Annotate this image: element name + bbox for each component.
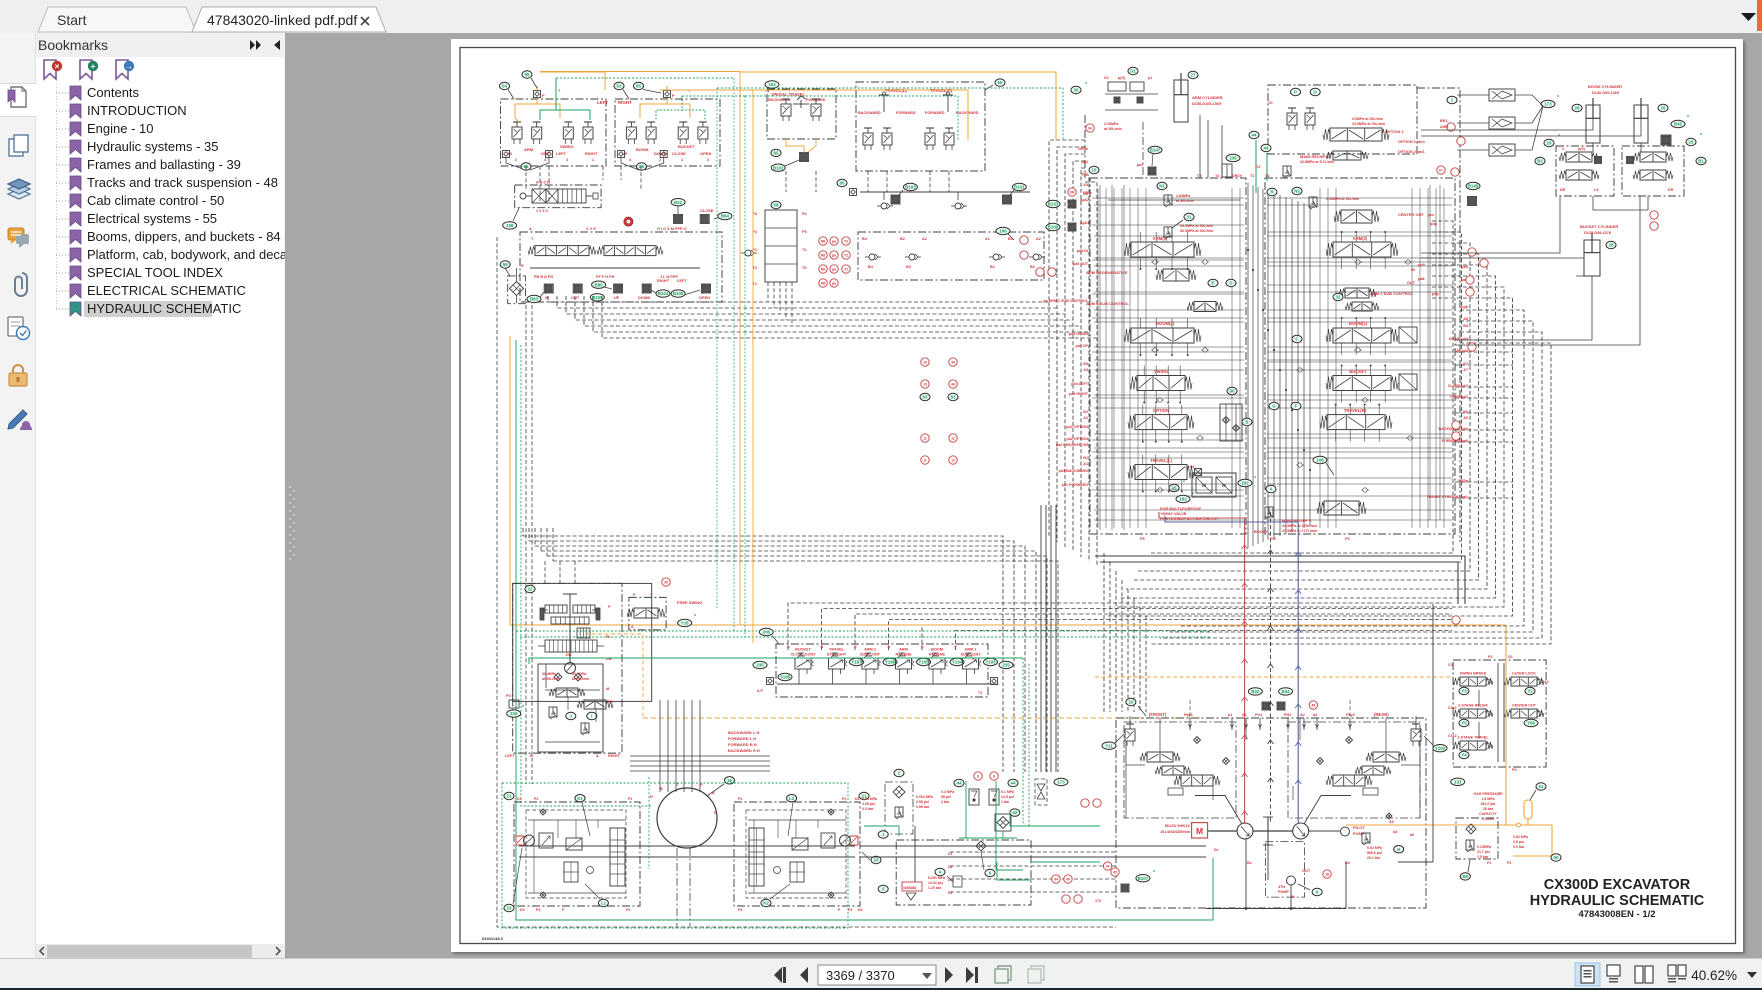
svg-text:UP pa8: UP pa8 — [1456, 349, 1468, 353]
svg-text:CENTER OUT: CENTER OUT — [1398, 212, 1425, 217]
svg-text:Trt: Trt — [1268, 101, 1273, 105]
right bank internal rails — [1267, 188, 1452, 528]
svg-text:B42: B42 — [1251, 689, 1260, 694]
schematic frame — [460, 48, 1736, 944]
oval 85 second — [634, 82, 662, 93]
svg-text:4: 4 — [629, 158, 632, 162]
svg-text:at 29L/min: at 29L/min — [542, 677, 559, 681]
svg-text:K1: K1 — [577, 796, 583, 801]
svg-text:pb3 LEFT: pb3 LEFT — [1071, 382, 1089, 386]
free swing valve Y18 — [627, 593, 702, 630]
svg-text:IN: IN — [545, 295, 549, 300]
oval 235 left — [753, 661, 774, 693]
pilot supply valve P/T left — [534, 86, 562, 98]
svg-text:pa1: pa1 — [1137, 163, 1143, 167]
svg-text:A B C D: A B C D — [536, 181, 550, 185]
svg-text:18 bar: 18 bar — [1483, 807, 1494, 811]
cylinder connect lines — [1421, 105, 1648, 345]
svg-text:*: * — [1085, 82, 1087, 88]
pump suction block 1 — [878, 826, 1031, 905]
svg-text:ARM: ARM — [899, 648, 908, 652]
svg-text:P: P — [1294, 90, 1297, 95]
oval L2 — [787, 795, 797, 837]
svg-text:A: A — [631, 625, 634, 629]
solenoid valve OPEN — [699, 284, 711, 300]
svg-text:pa5 IN: pa5 IN — [1077, 249, 1088, 253]
svg-text:B4: B4 — [862, 237, 868, 241]
pump inner boxes — [1124, 722, 1420, 818]
travel A-port down line — [1398, 604, 1433, 862]
svg-text:LEFT: LEFT — [677, 278, 687, 283]
boom cylinder label — [1588, 84, 1622, 95]
oval 173 check — [1035, 778, 1068, 805]
svg-text:B148: B148 — [1468, 184, 1479, 189]
svg-text:163: 163 — [768, 82, 776, 87]
valve Y99 center cut — [1504, 704, 1544, 727]
svg-text:3369 / 3370: 3369 / 3370 — [826, 968, 895, 983]
svg-text:P4: P4 — [738, 908, 742, 912]
svg-text:B6: B6 — [1462, 874, 1468, 879]
svg-text:pb1 BACKWARD: pb1 BACKWARD — [1059, 469, 1089, 473]
svg-text:B4: B4 — [868, 265, 874, 269]
svg-text:DR: DR — [1668, 188, 1674, 192]
svg-text:pg2: pg2 — [1081, 160, 1088, 164]
red circle near arm cylinder cluster — [1086, 124, 1094, 132]
svg-text:T: T — [531, 237, 534, 241]
svg-text:*: * — [1687, 115, 1689, 121]
svg-text:pb9: pb9 — [1418, 263, 1425, 267]
svg-text:M: M — [606, 687, 609, 691]
solenoid valve B101 — [1003, 183, 1027, 204]
orange dashed swing P line — [585, 634, 643, 718]
svg-text:ARM 1 SUB CONTROL: ARM 1 SUB CONTROL — [1086, 301, 1129, 306]
svg-text:Y104: Y104 — [952, 660, 963, 665]
pilot valve block 53 (right joystick BOOM/BUCKET) — [615, 99, 720, 170]
svg-text:0.06 bar: 0.06 bar — [916, 805, 930, 809]
svg-text:0.03 MPa: 0.03 MPa — [862, 797, 877, 801]
svg-text:BACKWARD: BACKWARD — [956, 111, 979, 115]
solenoid valve B84 CLOSE — [700, 208, 732, 224]
relief H — [1362, 833, 1404, 860]
solenoid valve B102 — [771, 153, 808, 172]
svg-text:pcc: pcc — [1428, 213, 1435, 217]
boost dashed vertical — [1268, 512, 1274, 824]
svg-text:pa4 UP: pa4 UP — [1075, 344, 1088, 348]
svg-text:22: 22 — [528, 587, 533, 592]
svg-text:a3: a3 — [1393, 830, 1397, 834]
svg-text:T: T — [676, 783, 679, 787]
green connects pump suction — [864, 812, 1100, 880]
svg-text:B1: B1 — [1698, 159, 1704, 164]
svg-text:p1: p1 — [1148, 76, 1152, 80]
svg-text:53: 53 — [617, 84, 622, 89]
svg-text:866.6 psi: 866.6 psi — [1367, 851, 1382, 855]
svg-text:a2: a2 — [1313, 713, 1317, 717]
svg-text:*: * — [1700, 133, 1702, 139]
svg-text:BUCKET: BUCKET — [678, 144, 695, 149]
green dashed pair near solenoid row to pump — [1023, 658, 1029, 826]
oval B105 — [590, 294, 604, 301]
oval 44 filter right — [989, 779, 1018, 805]
svg-text:CLOSE: CLOSE — [672, 151, 686, 156]
svg-text:P4: P4 — [802, 212, 808, 216]
wire top orange/green feeders — [540, 71, 740, 73]
oval 21 left — [504, 792, 514, 799]
svg-text:N1: N1 — [1159, 184, 1165, 189]
svg-text:UP: UP — [614, 295, 620, 300]
svg-text:OPEN: OPEN — [700, 151, 711, 156]
svg-text:Pay1: Pay1 — [1184, 713, 1193, 717]
svg-text:30.4MPa: 30.4MPa — [542, 672, 556, 676]
svg-text:P3: P3 — [1345, 537, 1350, 541]
oval B44 solenoid — [1277, 688, 1293, 710]
svg-text:A1: A1 — [985, 237, 990, 241]
svg-text:44: 44 — [1011, 781, 1016, 786]
svg-text:pa: pa — [832, 240, 836, 244]
svg-text:LEFT: LEFT — [556, 151, 567, 156]
wire bus descend to pump — [1104, 553, 1146, 712]
svg-text:CLOSE: CLOSE — [700, 208, 714, 213]
ovals J and I — [566, 712, 597, 719]
svg-text:Y102: Y102 — [1435, 746, 1446, 751]
svg-text:A: A — [529, 227, 532, 231]
svg-text:58 psi: 58 psi — [941, 795, 951, 799]
svg-text:CENTER CUT: CENTER CUT — [1512, 704, 1537, 708]
svg-text:Dr: Dr — [1214, 848, 1219, 852]
svg-text:14.5 psi: 14.5 psi — [1001, 795, 1014, 799]
left dashed vertical pair — [526, 305, 532, 784]
travel bundle verticals above circle16 — [660, 700, 700, 755]
svg-text:47843020-linked pdf.pdf: 47843020-linked pdf.pdf — [207, 12, 357, 28]
solenoid valve B103 — [891, 183, 917, 204]
svg-text:C: C — [1562, 147, 1565, 151]
engine M box — [1160, 823, 1207, 838]
svg-text:D3: D3 — [948, 891, 952, 895]
svg-text:B44: B44 — [1282, 689, 1291, 694]
boom cylinder valve cluster left — [1535, 134, 1614, 196]
svg-text:2-STAGE TRAVEL: 2-STAGE TRAVEL — [1457, 736, 1489, 740]
svg-text:45: 45 — [1311, 704, 1315, 708]
svg-text:2.8 psi: 2.8 psi — [1513, 840, 1524, 844]
svg-text:pb2 OPTION: pb2 OPTION — [1066, 425, 1088, 429]
svg-text:P2: P2 — [1507, 861, 1511, 865]
svg-text:TRAVEL: TRAVEL — [829, 648, 845, 652]
wire bus vertical center V1 — [1049, 140, 1097, 567]
svg-text:PF F H PH: PF F H PH — [596, 275, 615, 279]
svg-text:85: 85 — [639, 164, 644, 169]
svg-text:P2: P2 — [534, 797, 538, 801]
svg-text:C1s2: C1s2 — [1448, 734, 1457, 738]
svg-text:94: 94 — [1088, 127, 1092, 131]
svg-text:161.0kW/1800min: 161.0kW/1800min — [1160, 830, 1190, 834]
boom cylinder valve cluster right — [1622, 133, 1706, 196]
pump circle rear — [1293, 823, 1309, 839]
svg-text:Y11: Y11 — [1105, 743, 1113, 748]
svg-text:B: B — [660, 787, 663, 791]
svg-text:Y103: Y103 — [985, 660, 996, 665]
svg-text:DR1h: DR1h — [1078, 147, 1088, 151]
oval 163 — [765, 81, 779, 92]
svg-text:47843008EN - 1/2: 47843008EN - 1/2 — [1578, 909, 1655, 920]
svg-text:G: G — [1272, 404, 1276, 409]
svg-text:B: B — [821, 645, 824, 649]
spool riser stubs right bank — [1335, 231, 1387, 442]
wire block58 risers — [768, 282, 792, 326]
svg-text:3: 3 — [707, 158, 709, 162]
spool CENTER CUT — [1334, 210, 1438, 226]
wire bus nest outer rings — [1150, 310, 1551, 644]
svg-text:*: * — [1557, 95, 1559, 101]
red circles manifold right ports — [1468, 248, 1488, 351]
svg-text:90: 90 — [1230, 389, 1235, 394]
red circles near manifold — [1036, 123, 1465, 276]
svg-text:L2: L2 — [789, 796, 795, 801]
oval K1 — [575, 795, 590, 837]
svg-text:236: 236 — [1229, 156, 1237, 161]
svg-text:(FRONT): (FRONT) — [1149, 712, 1167, 717]
svg-text:OPEN: OPEN — [699, 295, 710, 300]
valve ARM 1 SUB CONTROL — [1086, 301, 1223, 312]
svg-text:B103: B103 — [905, 185, 916, 190]
svg-text:0.58 psi: 0.58 psi — [916, 800, 929, 804]
svg-text:FORWARD: FORWARD — [925, 111, 945, 115]
mid port circles cluster — [920, 358, 958, 464]
left bank port labels — [1043, 147, 1088, 487]
svg-text:44: 44 — [1106, 865, 1110, 869]
svg-text:1: 1 — [592, 158, 594, 162]
svg-text:1 bar: 1 bar — [1001, 800, 1010, 804]
svg-text:R: R — [521, 264, 524, 268]
svg-text:B2: B2 — [1083, 410, 1088, 414]
svg-text:I: I — [591, 714, 592, 719]
swing motor relief pair — [505, 664, 620, 758]
svg-text:pg&2: pg&2 — [1080, 198, 1089, 202]
valve Y4 2-stage travel — [1453, 736, 1493, 759]
svg-text:Y187: Y187 — [851, 660, 862, 665]
svg-text:B109: B109 — [1048, 225, 1059, 230]
svg-text:HYDRAULIC SCHEMATIC: HYDRAULIC SCHEMATIC — [1530, 893, 1705, 909]
oval 85 top-left — [522, 71, 537, 88]
oval D1 cluster — [1104, 67, 1158, 131]
oval 85 under block 53 — [637, 163, 647, 170]
pump right dashed stubs — [948, 852, 1116, 895]
oval 85 travel — [837, 179, 847, 186]
svg-text:26: 26 — [1575, 106, 1580, 111]
svg-text:39: 39 — [664, 581, 668, 585]
left boundary dashed — [497, 237, 1116, 927]
svg-text:DR3p: DR3p — [1458, 479, 1468, 483]
svg-text:261.0 psi: 261.0 psi — [1481, 802, 1496, 806]
svg-text:P1: P1 — [1487, 861, 1491, 865]
svg-text:pa ARM 1 SUB CONTROL: pa ARM 1 SUB CONTROL — [1043, 299, 1088, 303]
svg-text:B: B — [530, 754, 533, 758]
svg-text:CAPACITY: CAPACITY — [1479, 812, 1497, 816]
svg-text:A2: A2 — [1083, 416, 1088, 420]
svg-text:15: 15 — [1092, 168, 1097, 173]
svg-text:Y18: Y18 — [681, 621, 689, 626]
wire bus nest right side — [1108, 221, 1513, 616]
drive shaft — [1208, 817, 1293, 845]
svg-text:BACKWARD: BACKWARD — [858, 111, 881, 115]
swing block extra valves — [546, 664, 613, 722]
svg-text:85: 85 — [774, 151, 779, 156]
svg-text:BUCKET: BUCKET — [1349, 369, 1367, 374]
oval 234 and port — [506, 694, 524, 717]
svg-text:2.84MPa: 2.84MPa — [1176, 194, 1191, 198]
oval 236 and valve — [1222, 154, 1240, 177]
svg-text:A6: A6 — [1463, 416, 1468, 420]
pump left port circles — [1103, 862, 1155, 892]
oval 182 right — [1238, 476, 1256, 487]
svg-text:*: * — [694, 614, 696, 620]
svg-text:Pay2: Pay2 — [1346, 713, 1355, 717]
svg-text:0.1 MPa: 0.1 MPa — [1001, 790, 1014, 794]
svg-text:A2: A2 — [922, 237, 927, 241]
travel pilot block 55 — [856, 82, 985, 171]
svg-text:30: 30 — [1074, 88, 1079, 93]
svg-text:PILOT: PILOT — [1353, 825, 1365, 830]
travel motor right labels — [738, 797, 863, 912]
travel motor left labels — [517, 797, 632, 912]
svg-text:29.2 bar: 29.2 bar — [1367, 856, 1381, 860]
svg-text:27: 27 — [1191, 73, 1196, 78]
internal vertical lines between banks — [1143, 115, 1311, 548]
oval B83 — [527, 292, 544, 303]
svg-text:B6: B6 — [1463, 410, 1468, 414]
svg-text:P5: P5 — [1140, 537, 1145, 541]
svg-text:pa: pa — [832, 268, 836, 272]
svg-text:D2: D2 — [520, 908, 525, 912]
right bank internal hlines — [1267, 185, 1453, 520]
svg-text:B85: B85 — [595, 282, 604, 287]
4th pump — [1265, 831, 1331, 899]
oval 23 left — [504, 848, 522, 912]
svg-text:P3: P3 — [848, 908, 852, 912]
svg-text:*: * — [1153, 870, 1155, 876]
oval 58 — [771, 201, 781, 208]
svg-text:B83: B83 — [530, 297, 539, 302]
svg-text:p9p: p9p — [1432, 292, 1439, 296]
travel motor block right 21 — [734, 802, 860, 906]
svg-text:1.8 MPa: 1.8 MPa — [1481, 797, 1494, 801]
wire orange long left vertical and mid horizontal — [510, 336, 1506, 625]
svg-text:pg1: pg1 — [1081, 172, 1088, 176]
svg-text:29: 29 — [1689, 140, 1694, 145]
green solid swing DB line — [529, 653, 1023, 664]
svg-text:pa: pa — [832, 282, 836, 286]
svg-text:34.3MPa at 30L/min: 34.3MPa at 30L/min — [1180, 224, 1213, 228]
svg-text:PU1: PU1 — [1255, 713, 1262, 717]
svg-text:1 2 3 4: 1 2 3 4 — [536, 209, 548, 213]
svg-text:4: 4 — [544, 158, 547, 162]
spool BOOM(2) — [1124, 321, 1201, 343]
solenoid control valve row box — [776, 644, 988, 697]
wire green long left vertical — [516, 340, 1213, 920]
svg-text:Y186: Y186 — [885, 660, 896, 665]
svg-text:12: 12 — [951, 437, 955, 441]
svg-text:a1: a1 — [1228, 713, 1232, 717]
svg-text:1.23 bar: 1.23 bar — [928, 886, 942, 890]
A3 port labels — [1214, 813, 1397, 865]
oval B42 solenoid — [1248, 688, 1270, 710]
svg-text:10: 10 — [923, 383, 927, 387]
manifold small check valves scatter — [1151, 260, 1414, 492]
solenoid row valve Y187 — [821, 645, 865, 684]
svg-text:B104: B104 — [658, 291, 669, 296]
wire bus mid band — [523, 528, 1058, 772]
svg-text:0.4 MPa: 0.4 MPa — [941, 790, 954, 794]
solenoid valve UP — [614, 284, 623, 300]
solenoid valve IN (B83) — [544, 284, 553, 300]
svg-text:BACKWARD L.H: BACKWARD L.H — [728, 730, 759, 735]
svg-text:ARM 2 SUB CONTROL: ARM 2 SUB CONTROL — [1370, 291, 1413, 296]
valve TRAVEL STRAIGHT 108 — [1313, 456, 1366, 515]
svg-text:A: A — [596, 754, 599, 758]
svg-text:A P: A P — [757, 689, 763, 693]
svg-text:Tr2: Tr2 — [1255, 165, 1260, 169]
svg-text:12: 12 — [951, 459, 955, 463]
svg-text:2-STAGE RELIEF: 2-STAGE RELIEF — [1458, 704, 1489, 708]
svg-text:BOOM(1): BOOM(1) — [1349, 321, 1368, 326]
svg-text:OPTION 2: OPTION 2 — [1385, 129, 1404, 134]
svg-text:O: O — [1313, 90, 1317, 95]
svg-text:B2: B2 — [1030, 265, 1035, 269]
svg-text:P: P — [562, 908, 565, 912]
svg-text:A5: A5 — [1083, 183, 1088, 187]
svg-text:P0: P0 — [1512, 768, 1517, 772]
manifold to nest stubs — [1455, 340, 1513, 498]
svg-text:*: * — [522, 705, 524, 711]
svg-text:B3: B3 — [906, 265, 911, 269]
svg-text:21: 21 — [507, 794, 512, 799]
svg-text:pg&1: pg&1 — [1080, 221, 1089, 225]
svg-text:14.34 psi: 14.34 psi — [928, 881, 943, 885]
svg-text:LEFT: LEFT — [597, 100, 608, 105]
svg-text:MAIN RELIEF V.: MAIN RELIEF V. — [1300, 154, 1330, 159]
wire bus horizontal A from block 57 to center — [548, 296, 1097, 338]
oval 85 pedal — [771, 149, 781, 156]
svg-text:PUMP: PUMP — [1353, 831, 1365, 836]
svg-text:D1: D1 — [1130, 69, 1136, 74]
svg-text:pdp: pdp — [1430, 222, 1438, 226]
oval 45 — [1169, 465, 1202, 492]
oval Y11 — [1102, 734, 1124, 749]
oval 30 manifold top-left — [1071, 82, 1087, 94]
oval B45 — [1671, 115, 1689, 128]
svg-text:T1: T1 — [978, 691, 982, 695]
main control valve left bank box — [1090, 178, 1246, 534]
solenoid row valve Y103 — [955, 645, 999, 684]
svg-text:PM: PM — [1270, 537, 1276, 541]
title text — [1530, 877, 1705, 920]
oval N1 valve — [1108, 182, 1240, 207]
svg-text:RIGHT: RIGHT — [608, 754, 620, 758]
svg-text:pa2 OPTION: pa2 OPTION — [1066, 437, 1088, 441]
document number — [482, 936, 504, 941]
svg-text:44: 44 — [1264, 146, 1269, 151]
svg-text:0.15MPa: 0.15MPa — [1477, 845, 1491, 849]
svg-text:OPTION 2 par1: OPTION 2 par1 — [1398, 150, 1425, 154]
wire dashed verticals under pilot blocks — [526, 166, 949, 201]
svg-text:B2: B2 — [900, 237, 905, 241]
svg-text:4.35 psi: 4.35 psi — [862, 802, 875, 806]
svg-text:2: 2 — [515, 158, 517, 162]
orange dashed C2 line — [1095, 676, 1453, 678]
solenoid row valve Y188 — [778, 645, 831, 684]
valve Y3 swing brake — [1453, 672, 1493, 695]
oval A bottom relief — [1266, 485, 1276, 492]
svg-text:A1: A1 — [1083, 462, 1088, 466]
